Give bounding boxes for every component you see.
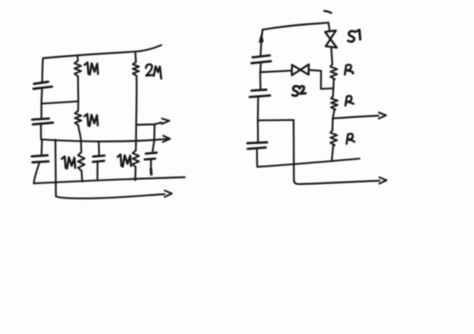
- wire to S2: [260, 71, 291, 73]
- wire: [77, 101, 79, 111]
- wire: [256, 149, 258, 167]
- label 2M: [146, 64, 161, 78]
- wire bottom rail left circuit: [34, 177, 185, 183]
- label 1M (R2): [84, 114, 97, 126]
- capacitor C8: [247, 142, 267, 149]
- wire: [135, 125, 137, 151]
- wire S2 to chain: [309, 70, 333, 89]
- resistor 2M: [133, 62, 139, 76]
- label 1M (R4): [118, 155, 131, 167]
- wire: [257, 97, 259, 142]
- wire bottom arrow right circuit: [294, 181, 380, 185]
- wire: [332, 79, 335, 96]
- wire W2 mid horizontal with arrow: [41, 139, 167, 141]
- wire mid arrow right circuit: [333, 116, 379, 119]
- wire bottom rail right circuit: [257, 159, 359, 167]
- capacitor C3: [32, 155, 49, 162]
- resistor R2 1M: [75, 111, 81, 125]
- resistor R4 1M: [133, 150, 139, 167]
- resistor R1 1M: [75, 61, 82, 76]
- wire left vertical top segment: [41, 58, 44, 81]
- resistor R3 1M: [78, 152, 85, 171]
- wire: [259, 63, 262, 72]
- resistor R6: [331, 96, 338, 109]
- label R7: [347, 134, 355, 144]
- wire: [331, 118, 333, 130]
- capacitor C5: [93, 156, 105, 162]
- wire: [81, 171, 84, 182]
- wire: [135, 76, 137, 125]
- node top of 2M: [134, 52, 137, 62]
- wire left vertical right circuit: [261, 30, 263, 55]
- label R5: [345, 65, 353, 75]
- wire bottom arrow left circuit: [56, 194, 165, 198]
- wire: [40, 104, 42, 119]
- wire top rail left circuit: [43, 45, 161, 58]
- wire: [40, 89, 43, 103]
- resistor R7: [330, 130, 337, 145]
- label 1M (R1): [85, 63, 98, 75]
- polarity arrow blob: [259, 34, 263, 42]
- node top of R1: [77, 55, 79, 60]
- wire drop to S1: [328, 23, 329, 31]
- valve S2: [292, 64, 309, 75]
- wire: [293, 120, 295, 181]
- wire: [331, 48, 332, 64]
- wire: [332, 145, 334, 160]
- wire short arrow branch: [136, 123, 161, 125]
- label R6: [345, 96, 353, 106]
- wire stub to C5: [98, 142, 100, 155]
- wire: [34, 163, 40, 184]
- wire: [96, 162, 98, 179]
- lamp S1: [325, 31, 337, 48]
- wire stub to C3: [41, 139, 44, 154]
- wire: [134, 167, 136, 180]
- capacitor C1: [33, 82, 52, 89]
- wire: [150, 160, 152, 169]
- wire: [333, 110, 335, 119]
- resistor R5: [330, 64, 337, 79]
- wire: [77, 76, 79, 101]
- wire branch to bottom arrow: [258, 119, 294, 121]
- label S1: [348, 30, 360, 42]
- label S2: [292, 86, 305, 96]
- capacitor C2: [32, 119, 53, 125]
- wire: [78, 125, 81, 152]
- wire: [259, 72, 261, 89]
- wire: [40, 125, 42, 140]
- wire W1 horizontal: [41, 101, 78, 103]
- capacitor C7: [250, 90, 270, 97]
- wire top rail right circuit: [263, 23, 329, 30]
- capacitor C6: [252, 55, 271, 63]
- capacitor C4: [145, 153, 157, 160]
- label 1M (R3): [62, 157, 75, 169]
- wire vertical to C4: [153, 124, 155, 151]
- wire vertical drop: [54, 140, 57, 197]
- tick mark above S1: [324, 11, 331, 13]
